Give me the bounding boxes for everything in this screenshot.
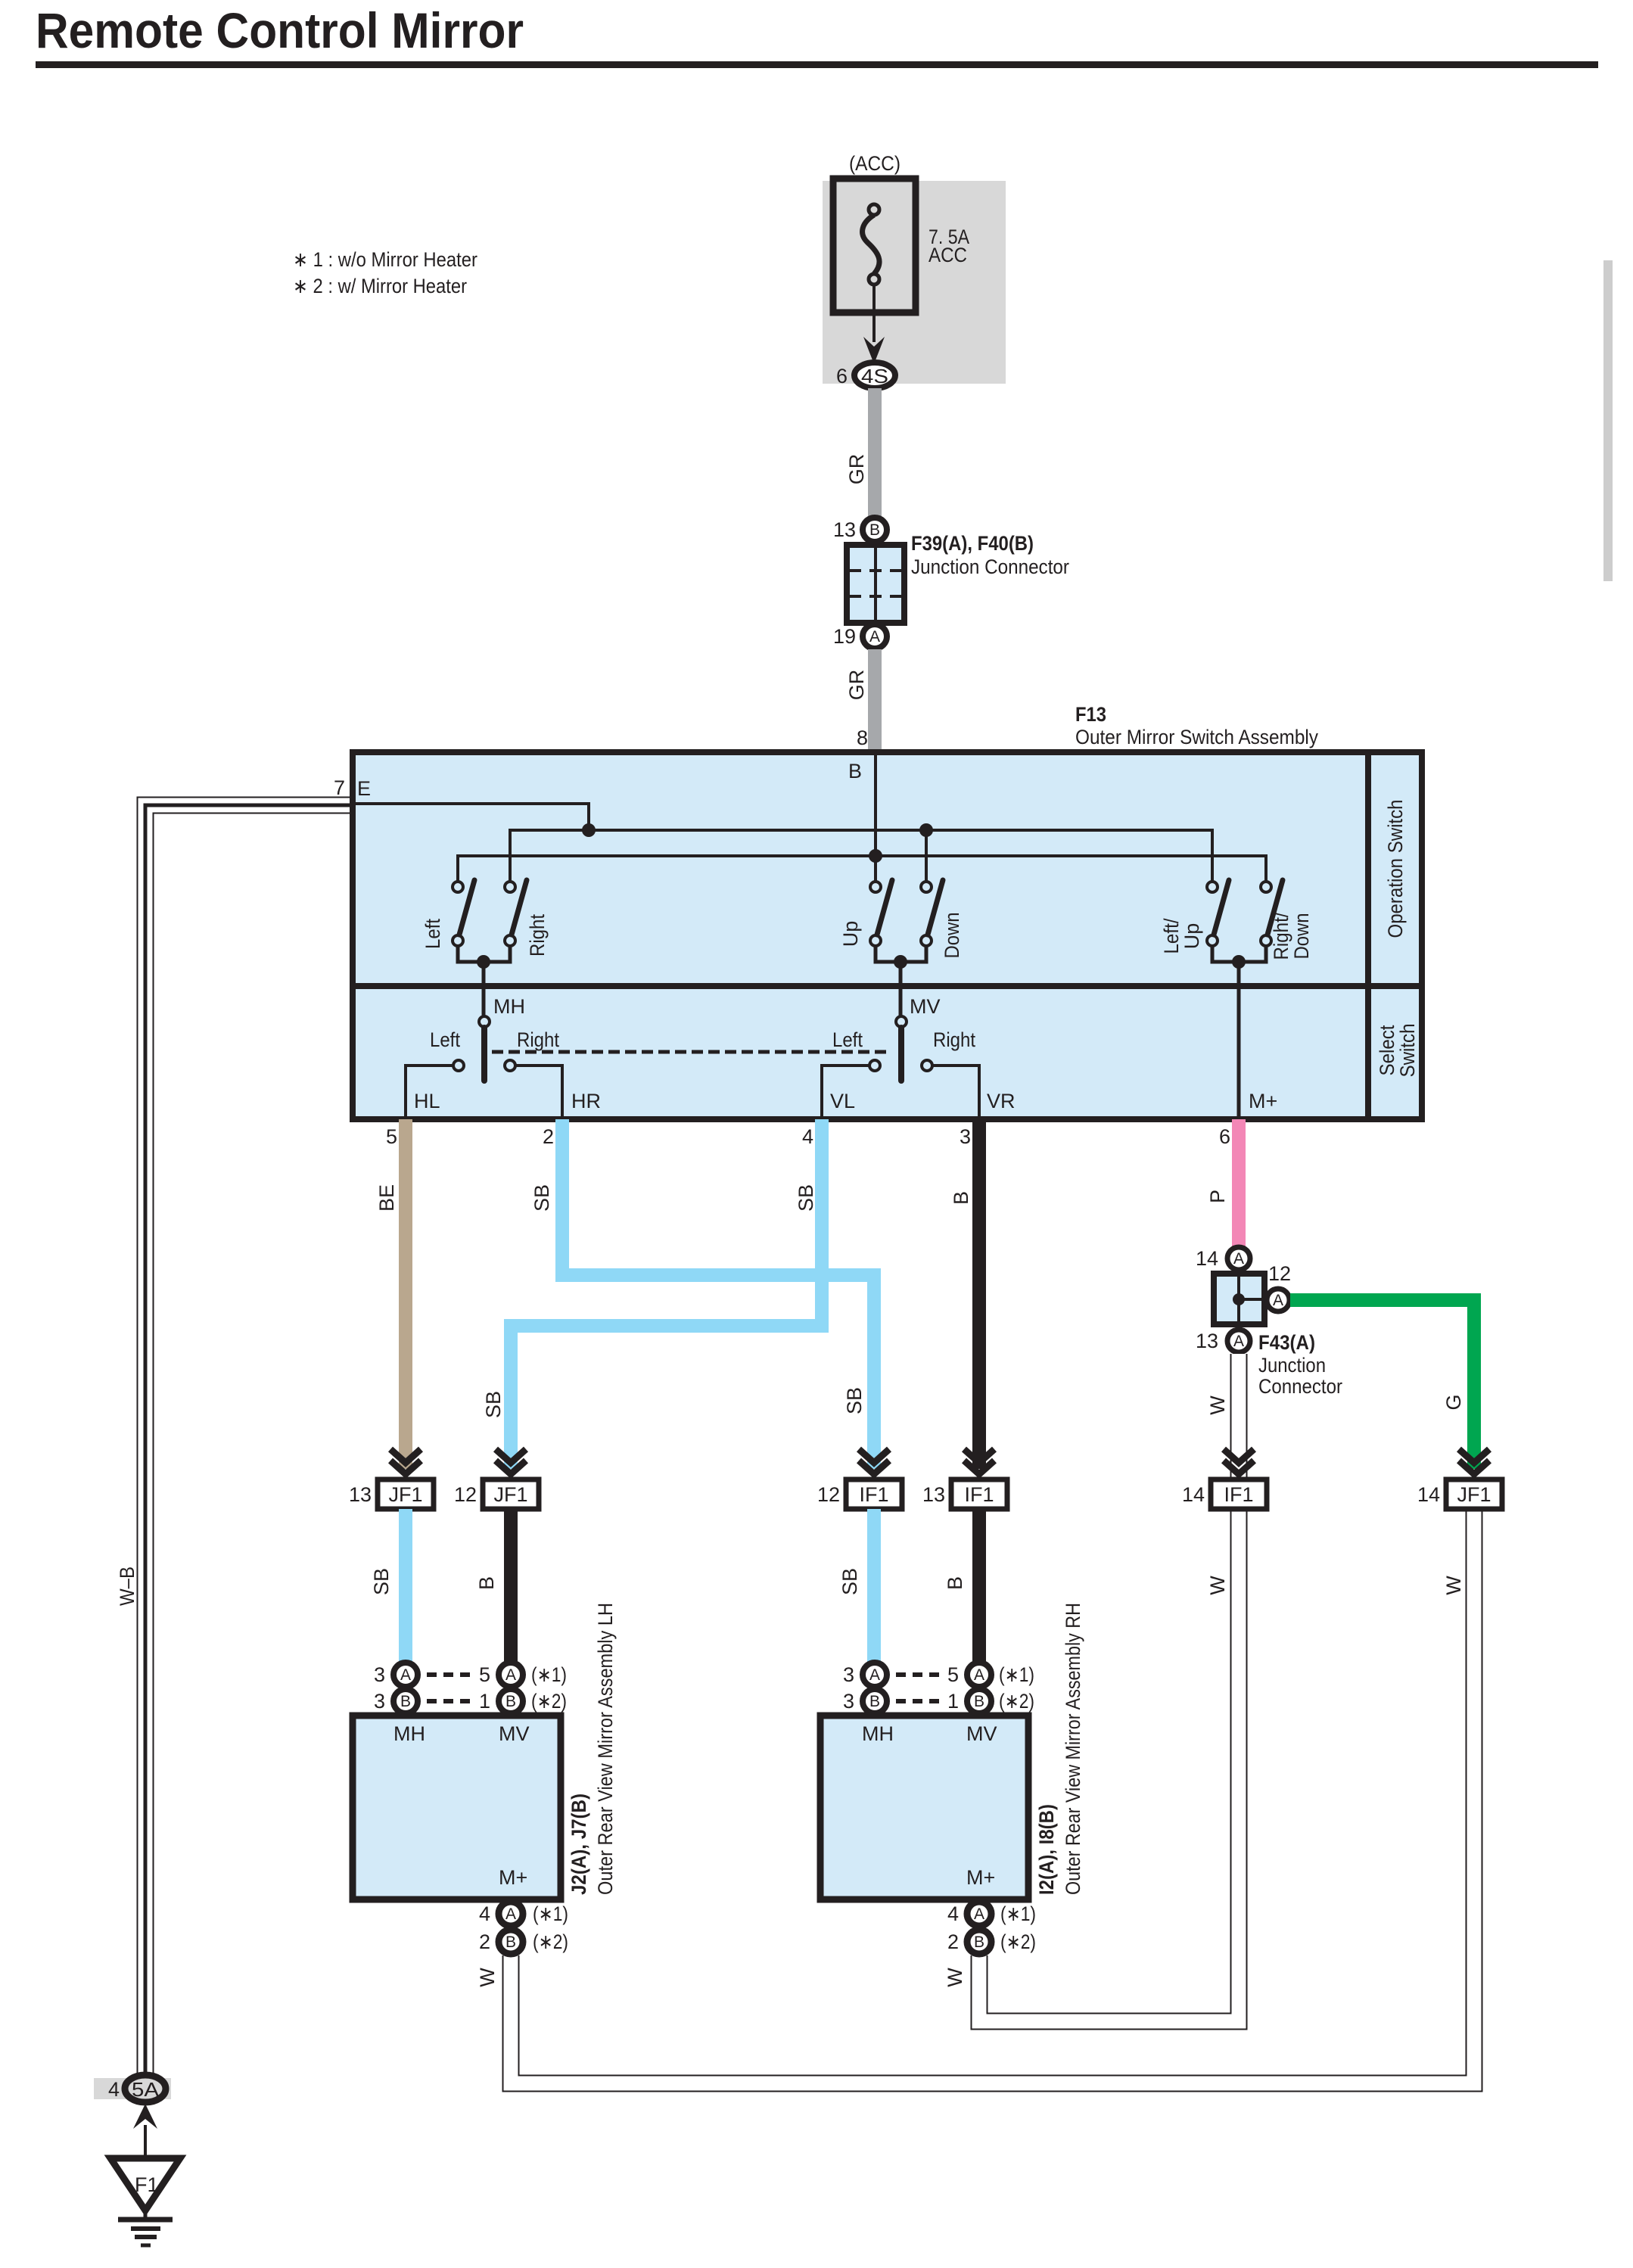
svg-text:13: 13: [349, 1483, 372, 1506]
svg-text:Right: Right: [526, 914, 549, 957]
svg-text:3: 3: [960, 1125, 971, 1148]
label MV LH: [499, 1722, 530, 1745]
select contact HL: [453, 1060, 464, 1071]
wire B vertical: [874, 755, 877, 882]
pin 7: [334, 776, 345, 799]
label VL: [830, 1090, 855, 1112]
wire U M+: [1212, 946, 1266, 1116]
junction dot rail1-down: [919, 823, 933, 837]
switch Right/Down: [1261, 880, 1283, 946]
connector IF1 14: [1182, 1479, 1267, 1509]
label BE: [375, 1184, 398, 1212]
svg-text:Up: Up: [1180, 923, 1203, 950]
arrow into 5A: [133, 2104, 157, 2129]
label M+ RH: [966, 1866, 995, 1889]
svg-text:Down: Down: [941, 913, 963, 959]
wire B to RH mirror: [972, 1509, 986, 1662]
label F39(A), F40(B): [911, 532, 1034, 555]
select contact VR: [922, 1060, 932, 1071]
junction dot E-rail1: [582, 823, 596, 837]
label B LH: [475, 1576, 498, 1590]
pin 8: [857, 726, 868, 749]
svg-text:A: A: [505, 1666, 516, 1684]
svg-text:Right/: Right/: [1270, 912, 1292, 960]
svg-text:Operation Switch: Operation Switch: [1384, 800, 1407, 938]
svg-text:(∗2): (∗2): [999, 1690, 1034, 1713]
svg-text:ACC: ACC: [928, 244, 967, 266]
wire U MH: [458, 946, 510, 1016]
svg-text:A: A: [400, 1666, 411, 1684]
svg-text:JF1: JF1: [493, 1483, 527, 1506]
svg-text:3: 3: [843, 1663, 854, 1686]
outer rear view mirror LH box: [353, 1716, 561, 1899]
junction dot B-rail2: [869, 849, 882, 863]
svg-text:Select: Select: [1376, 1025, 1398, 1075]
svg-text:GR: GR: [845, 454, 868, 485]
pin 12 A: [1267, 1262, 1291, 1311]
svg-text:G: G: [1442, 1394, 1465, 1410]
wire W right mirror to IF1: [979, 1510, 1239, 2021]
node E: [357, 777, 371, 800]
fuse block shading: [823, 181, 1006, 384]
svg-text:M+: M+: [499, 1866, 527, 1889]
svg-text:(∗2): (∗2): [533, 1930, 568, 1953]
svg-text:Right: Right: [517, 1028, 559, 1051]
label W JF1 drop: [1442, 1576, 1465, 1595]
label J2(A), J7(B): [568, 1794, 590, 1895]
svg-text:13: 13: [833, 518, 856, 541]
wire G: [1290, 1300, 1474, 1469]
svg-text:IF1: IF1: [964, 1483, 994, 1506]
connector JF1 13: [349, 1479, 434, 1509]
arrow into JF1 12: [496, 1449, 526, 1474]
label F43(A): [1258, 1331, 1315, 1354]
svg-text:2: 2: [543, 1125, 554, 1148]
label W left mirror: [476, 1968, 499, 1987]
label B pin3: [950, 1191, 972, 1205]
svg-text:SB: SB: [795, 1184, 817, 1212]
svg-text:1: 1: [479, 1690, 490, 1713]
svg-text:3: 3: [843, 1690, 854, 1713]
svg-text:∗ 1 : w/o Mirror Heater: ∗ 1 : w/o Mirror Heater: [293, 248, 477, 271]
svg-text:(∗1): (∗1): [999, 1663, 1034, 1686]
label HL: [414, 1090, 440, 1112]
svg-text:B: B: [974, 1693, 984, 1710]
svg-text:F39(A), F40(B): F39(A), F40(B): [911, 532, 1034, 555]
label SB LH: [370, 1568, 393, 1595]
wire SB pin2: [562, 1119, 874, 1469]
svg-text:4: 4: [802, 1125, 813, 1148]
label W-B: [116, 1566, 138, 1606]
wire B to LH mirror: [504, 1509, 518, 1662]
label Select Switch: [1376, 1024, 1419, 1078]
fuse element: [863, 204, 879, 285]
svg-text:5: 5: [386, 1125, 397, 1148]
svg-text:A: A: [1273, 1292, 1283, 1309]
arrow into JF1 14: [1459, 1449, 1489, 1474]
wire U MV: [876, 946, 926, 1016]
svg-text:W: W: [1442, 1576, 1465, 1595]
svg-text:A: A: [869, 1666, 880, 1684]
RH top connectors: [843, 1663, 1034, 1713]
wire GR lower: [868, 649, 882, 754]
svg-text:W: W: [1206, 1576, 1229, 1595]
svg-text:(∗2): (∗2): [531, 1690, 567, 1713]
label W right mirror: [944, 1968, 966, 1987]
label Operation Switch: [1384, 800, 1407, 938]
svg-text:7: 7: [334, 776, 345, 799]
pin 19 A: [833, 624, 887, 649]
connector 4S pin 6: [836, 362, 895, 388]
label Junction: [1258, 1354, 1326, 1377]
switch Down: [921, 880, 943, 946]
pin 4: [802, 1125, 813, 1148]
svg-text:3: 3: [374, 1663, 385, 1686]
svg-text:Connector: Connector: [1258, 1375, 1342, 1398]
svg-text:MH: MH: [393, 1722, 425, 1745]
svg-text:Remote Control Mirror: Remote Control Mirror: [36, 2, 524, 58]
rail1 wire: [510, 830, 1212, 882]
svg-text:F43(A): F43(A): [1258, 1331, 1315, 1354]
label HR: [571, 1090, 601, 1112]
svg-text:∗ 2 : w/ Mirror Heater: ∗ 2 : w/ Mirror Heater: [293, 275, 467, 297]
label Left/Up: [1160, 918, 1203, 954]
wire P pin6: [1232, 1119, 1246, 1249]
svg-text:14: 14: [1417, 1483, 1440, 1506]
wire SB pin4: [511, 1119, 822, 1469]
label select Right 2: [933, 1028, 975, 1051]
svg-text:3: 3: [374, 1690, 385, 1713]
wire HR: [515, 1066, 562, 1116]
svg-text:MV: MV: [499, 1722, 530, 1745]
fuse 7.5A ACC body: [833, 179, 916, 313]
label MH: [493, 995, 525, 1018]
fuse value 7.5A ACC: [928, 226, 969, 266]
connector JF1 14: [1417, 1479, 1502, 1509]
svg-text:5: 5: [479, 1663, 490, 1686]
note *2 w/ Mirror Heater: [293, 275, 467, 297]
svg-text:Up: Up: [839, 921, 862, 947]
label B RH: [944, 1576, 966, 1590]
wire VR: [932, 1066, 979, 1116]
connector 5A pin 4: [108, 2075, 166, 2102]
svg-text:MH: MH: [862, 1722, 894, 1745]
mechanical link dashed: [492, 1050, 890, 1054]
label W F43: [1206, 1395, 1229, 1415]
wire W left mirror to JF1: [511, 1510, 1474, 2083]
svg-text:4S: 4S: [861, 365, 888, 387]
wire W F43 down: [1230, 1354, 1248, 1481]
svg-text:12: 12: [817, 1483, 840, 1506]
label GR upper: [845, 454, 868, 485]
wire SB to RH mirror: [867, 1509, 881, 1662]
svg-text:Junction: Junction: [1258, 1354, 1326, 1377]
pin 13 B: [833, 518, 887, 542]
svg-text:B: B: [944, 1576, 966, 1590]
svg-text:(∗1): (∗1): [531, 1663, 567, 1686]
svg-text:VL: VL: [830, 1090, 855, 1112]
svg-text:2: 2: [947, 1930, 959, 1953]
label SB pin2: [530, 1184, 553, 1212]
label P: [1206, 1190, 1229, 1203]
wire W-B: [145, 805, 353, 2074]
svg-text:Switch: Switch: [1396, 1024, 1419, 1078]
title: Remote Control Mirror: [36, 2, 524, 58]
pin 14 A: [1196, 1247, 1250, 1270]
svg-text:W: W: [476, 1968, 499, 1987]
svg-text:(∗1): (∗1): [1000, 1902, 1036, 1925]
pin 2: [543, 1125, 554, 1148]
select MV blade: [898, 1028, 904, 1081]
svg-text:MV: MV: [910, 995, 941, 1018]
switch Right: [505, 880, 527, 946]
arrow into IF1 13: [964, 1449, 994, 1474]
label Right/Down: [1270, 912, 1313, 960]
connector IF1 13: [922, 1479, 1007, 1509]
arrow into IF1 12: [859, 1449, 889, 1474]
svg-text:A: A: [974, 1666, 984, 1684]
outer rear view mirror RH box: [820, 1716, 1028, 1899]
svg-text:W–B: W–B: [116, 1566, 138, 1606]
svg-text:IF1: IF1: [859, 1483, 888, 1506]
pin 3: [960, 1125, 971, 1148]
svg-text:A: A: [1233, 1250, 1244, 1268]
arrow into IF1 14: [1224, 1449, 1254, 1474]
label I2(A), I8(B): [1035, 1804, 1058, 1895]
select contact HR: [505, 1060, 515, 1071]
switch Up: [870, 880, 892, 946]
svg-text:W: W: [1206, 1395, 1229, 1415]
svg-text:B: B: [869, 521, 880, 539]
svg-text:JF1: JF1: [1457, 1483, 1491, 1506]
label Up: [839, 921, 862, 947]
page edge artifact: [1603, 260, 1613, 581]
svg-text:A: A: [974, 1906, 984, 1923]
pin 13 A: [1196, 1330, 1250, 1352]
select MH blade: [481, 1028, 487, 1081]
wire BE pin5: [399, 1119, 412, 1469]
svg-text:M+: M+: [966, 1866, 995, 1889]
label Outer Mirror Switch Assembly: [1075, 726, 1318, 748]
junction connector F39/F40: [847, 545, 904, 623]
label MV: [910, 995, 941, 1018]
outer mirror switch assembly F13 box: [353, 752, 1422, 1119]
svg-text:HR: HR: [571, 1090, 601, 1112]
label Junction Connector: [911, 555, 1069, 578]
select MV common: [896, 1016, 907, 1027]
svg-text:J2(A), J7(B): J2(A), J7(B): [568, 1794, 590, 1895]
svg-text:B: B: [475, 1576, 498, 1590]
label Outer Rear View Mirror Assembly RH: [1062, 1603, 1084, 1895]
svg-text:SB: SB: [482, 1391, 505, 1418]
svg-text:5A: 5A: [132, 2078, 160, 2101]
svg-text:B: B: [505, 1693, 516, 1710]
switch Left: [453, 880, 474, 946]
wire VL: [822, 1066, 869, 1116]
svg-text:6: 6: [836, 365, 848, 387]
svg-text:4: 4: [479, 1902, 490, 1925]
svg-text:12: 12: [1268, 1262, 1291, 1285]
wire fuse to connector: [872, 285, 876, 342]
svg-text:A: A: [869, 628, 880, 646]
svg-text:(ACC): (ACC): [849, 152, 900, 175]
svg-text:JF1: JF1: [388, 1483, 422, 1506]
svg-text:GR: GR: [845, 670, 868, 701]
label select Right 1: [517, 1028, 559, 1051]
wire B pin3: [972, 1119, 986, 1469]
svg-text:B: B: [848, 760, 862, 782]
pin 6b: [1219, 1125, 1230, 1148]
label VR: [987, 1090, 1016, 1112]
svg-text:VR: VR: [987, 1090, 1016, 1112]
svg-text:(∗1): (∗1): [533, 1902, 568, 1925]
label M+: [1249, 1090, 1277, 1112]
wire GR upper: [868, 388, 882, 519]
wire SB to LH mirror: [399, 1509, 412, 1662]
svg-text:B: B: [400, 1693, 411, 1710]
svg-text:6: 6: [1219, 1125, 1230, 1148]
svg-text:Junction Connector: Junction Connector: [911, 555, 1069, 578]
label Connector: [1258, 1375, 1342, 1398]
wire to ground: [144, 2125, 147, 2158]
svg-text:SB: SB: [838, 1568, 861, 1595]
label Right: [526, 914, 549, 957]
svg-text:HL: HL: [414, 1090, 440, 1112]
rail2 wire: [458, 856, 1266, 882]
arrow into 4S: [863, 337, 885, 364]
node B: [848, 760, 862, 782]
svg-text:A: A: [1233, 1333, 1244, 1350]
svg-text:IF1: IF1: [1224, 1483, 1253, 1506]
svg-text:F13: F13: [1075, 703, 1106, 726]
ground F1 triangle: [110, 2158, 180, 2210]
label G: [1442, 1394, 1465, 1410]
label MV RH: [966, 1722, 997, 1745]
label Outer Rear View Mirror Assembly LH: [594, 1603, 617, 1895]
svg-text:19: 19: [833, 625, 856, 648]
LH bottom connectors: [479, 1902, 568, 1954]
label SB RH: [838, 1568, 861, 1595]
wire E to rail1: [353, 804, 589, 830]
svg-text:E: E: [357, 777, 371, 800]
wire HL: [406, 1066, 453, 1116]
note *1 w/o Mirror Heater: [293, 248, 477, 271]
svg-text:Left/: Left/: [1160, 918, 1183, 954]
svg-text:BE: BE: [375, 1184, 398, 1212]
label M+ LH: [499, 1866, 527, 1889]
svg-text:SB: SB: [530, 1184, 553, 1212]
connector IF1 12: [817, 1479, 902, 1509]
svg-text:B: B: [505, 1934, 516, 1951]
svg-text:12: 12: [454, 1483, 477, 1506]
svg-text:P: P: [1206, 1190, 1229, 1203]
svg-text:4: 4: [108, 2078, 120, 2101]
svg-text:Left: Left: [421, 919, 444, 949]
junction connector F43 box: [1214, 1274, 1264, 1324]
switch Left/Up: [1207, 880, 1229, 946]
svg-text:Outer Rear View Mirror Assembl: Outer Rear View Mirror Assembly LH: [594, 1603, 617, 1895]
label GR lower: [845, 670, 868, 701]
svg-text:13: 13: [1196, 1330, 1218, 1352]
svg-text:F1: F1: [135, 2173, 159, 2196]
svg-text:Left: Left: [832, 1028, 863, 1051]
svg-text:13: 13: [922, 1483, 945, 1506]
label Down: [941, 913, 963, 959]
label MH LH: [393, 1722, 425, 1745]
svg-text:(∗2): (∗2): [1000, 1930, 1036, 1953]
svg-text:Outer Rear View Mirror Assembl: Outer Rear View Mirror Assembly RH: [1062, 1603, 1084, 1895]
svg-text:I2(A), I8(B): I2(A), I8(B): [1035, 1804, 1058, 1895]
svg-text:1: 1: [947, 1690, 959, 1713]
select contact VL: [869, 1060, 880, 1071]
label SB pin4: [795, 1184, 817, 1212]
svg-text:2: 2: [479, 1930, 490, 1953]
svg-text:MV: MV: [966, 1722, 997, 1745]
svg-text:MH: MH: [493, 995, 525, 1018]
label W IF1 drop: [1206, 1576, 1229, 1595]
pin 5: [386, 1125, 397, 1148]
svg-text:SB: SB: [843, 1387, 866, 1414]
LH top connectors: [374, 1663, 567, 1713]
svg-text:A: A: [505, 1906, 516, 1923]
ground symbol: [118, 2210, 173, 2245]
label SB drop right: [843, 1387, 866, 1414]
svg-text:M+: M+: [1249, 1090, 1277, 1112]
label select Left 2: [832, 1028, 863, 1051]
arrow into JF1 13: [390, 1449, 421, 1474]
svg-text:14: 14: [1182, 1483, 1205, 1506]
label select Left 1: [430, 1028, 460, 1051]
svg-text:B: B: [974, 1934, 984, 1951]
label F13: [1075, 703, 1106, 726]
label MH RH: [862, 1722, 894, 1745]
svg-text:14: 14: [1196, 1247, 1218, 1270]
svg-text:8: 8: [857, 726, 868, 749]
svg-text:5: 5: [947, 1663, 959, 1686]
svg-text:SB: SB: [370, 1568, 393, 1595]
svg-text:Right: Right: [933, 1028, 975, 1051]
svg-text:W: W: [944, 1968, 966, 1987]
connector JF1 12: [454, 1479, 539, 1509]
label (ACC): [849, 152, 900, 175]
svg-text:Outer Mirror Switch Assembly: Outer Mirror Switch Assembly: [1075, 726, 1318, 748]
svg-text:B: B: [869, 1693, 880, 1710]
svg-text:4: 4: [947, 1902, 959, 1925]
ground connector shading: [94, 2078, 171, 2099]
svg-text:Down: Down: [1290, 913, 1313, 960]
RH bottom connectors: [947, 1902, 1036, 1954]
label SB drop left: [482, 1391, 505, 1418]
select MH common: [479, 1016, 490, 1027]
svg-text:B: B: [950, 1191, 972, 1205]
label Left: [421, 919, 444, 949]
title underline: [36, 61, 1598, 68]
svg-text:Left: Left: [430, 1028, 460, 1051]
